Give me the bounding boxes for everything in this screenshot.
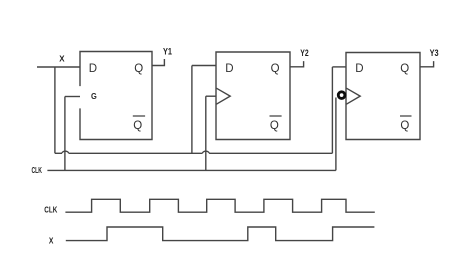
svg-text:CLK: CLK xyxy=(32,166,43,175)
svg-text:X: X xyxy=(49,237,54,246)
svg-text:CLK: CLK xyxy=(44,206,57,215)
clock triangle U2 xyxy=(216,88,230,104)
wire X distribution segment 2 xyxy=(69,152,203,154)
overline Q-bar (U1) xyxy=(133,115,145,117)
wire CLK tap to U2 clock xyxy=(205,96,207,170)
svg-text:G: G xyxy=(91,91,97,101)
wire to U2 D input xyxy=(192,65,216,67)
clock triangle U3 xyxy=(346,88,360,104)
wire hop over CLK tap 1 xyxy=(62,151,69,153)
svg-text:Q: Q xyxy=(400,63,409,75)
wire X distribution segment 3 xyxy=(209,152,332,154)
waveform CLK trace xyxy=(65,199,374,212)
svg-text:Y1: Y1 xyxy=(163,47,172,57)
wire hop over CLK tap 2 xyxy=(203,151,210,153)
svg-text:Q: Q xyxy=(271,63,280,75)
wire to U2 clock input xyxy=(206,95,217,97)
node junction D2 tap xyxy=(191,66,193,154)
svg-text:Q: Q xyxy=(133,120,142,132)
svg-text:D: D xyxy=(89,63,97,75)
wire X vertical tap xyxy=(54,67,56,153)
svg-text:Q: Q xyxy=(270,120,279,132)
waveform X trace xyxy=(66,227,375,241)
wire X input to U1 D xyxy=(37,66,80,68)
svg-text:Q: Q xyxy=(400,120,409,132)
wire CLK tap to U3 bubble xyxy=(335,98,337,171)
flip-flop U1 (gated D latch) body xyxy=(80,52,152,140)
wire Q1 to Y1 hook xyxy=(152,59,164,66)
wire X distribution segment 1 xyxy=(55,152,62,154)
svg-text:X: X xyxy=(59,54,65,64)
svg-text:D: D xyxy=(225,63,233,75)
flip-flop U2 (positive-edge D flip-flop) body xyxy=(216,52,290,140)
inversion bubble U3 clock xyxy=(338,92,345,99)
overline Q-bar (U3) xyxy=(400,115,412,117)
wire riser to U3 D xyxy=(331,67,333,153)
wire CLK tap to U1 G xyxy=(64,97,66,171)
wire Q2 to Y2 hook xyxy=(290,61,304,67)
svg-text:Y3: Y3 xyxy=(430,48,439,58)
flip-flop U3 (negative-edge D flip-flop) body xyxy=(346,53,420,140)
wire Q3 to Y3 hook xyxy=(420,61,434,67)
svg-text:Y2: Y2 xyxy=(300,48,308,58)
overline Q-bar (U2) xyxy=(270,115,282,117)
svg-text:Q: Q xyxy=(134,63,143,75)
wire G stub U1 xyxy=(65,96,80,98)
wire to U3 D input xyxy=(332,66,346,68)
wire CLK horizontal xyxy=(47,169,336,171)
svg-text:D: D xyxy=(355,63,363,75)
